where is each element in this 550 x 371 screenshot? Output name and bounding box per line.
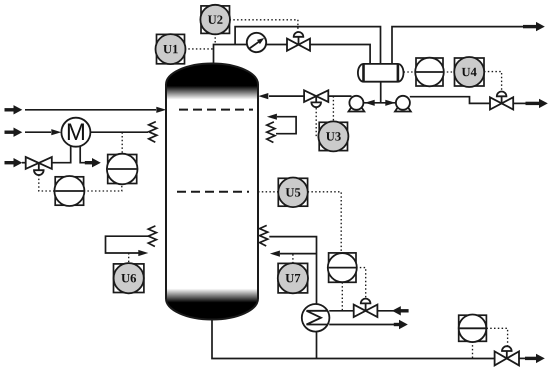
wire: valve V1 outlet to drum inlet: [310, 45, 370, 64]
distillation column C1 bottom cap: [166, 284, 258, 320]
signal: T4 to U4: [443, 71, 455, 73]
valve V7 (feed 3 valve): [26, 157, 52, 175]
wire: bypass line over valve to drum: [235, 27, 380, 64]
wire: condensate outlet line: [329, 324, 394, 326]
bold arrow: steam inlet (pointing left): [392, 306, 409, 315]
wire: overhead vapor line from column top: [214, 45, 288, 64]
heater coil Z3 (upper right squiggle): [267, 122, 275, 143]
arrow: upper right loop into column: [267, 114, 277, 120]
heater coil Z2 (lower left squiggle): [148, 226, 156, 247]
signal: U2 to valve V1 actuator: [230, 20, 298, 32]
condenser drum D1: [358, 64, 404, 82]
valve V1 (overhead control valve): [287, 32, 310, 51]
wire: upper right C loop: [276, 117, 296, 134]
wire: reflux line from valve V2 to column: [269, 95, 304, 97]
arrow: reflux into column: [258, 93, 268, 99]
bold arrow: mixer outlet product: [85, 158, 101, 167]
controller U2: [200, 5, 230, 35]
wire: bottoms outlet: [519, 357, 528, 359]
arrow: reboiler return into column: [270, 251, 280, 257]
bold arrow: feed 2 inlet: [5, 128, 23, 137]
valve V4 (distillate valve): [490, 91, 513, 109]
heater coil Z4 (reboiler return squiggle): [260, 225, 268, 246]
transmitter T6 (bottoms): [459, 315, 487, 343]
signal: column to U5: [258, 191, 278, 193]
wire: feed3 arrow to valve: [22, 162, 26, 164]
arrow: feed 2 into mixer: [51, 129, 61, 135]
controller U5: [278, 178, 308, 208]
signal: loop to U6: [128, 253, 130, 264]
signal: mixer line down to T1: [121, 132, 123, 154]
wire: vent line from drum to top-right outlet: [392, 27, 526, 64]
pump P1 (reflux pump): [349, 96, 365, 112]
transmitter T2: [54, 176, 84, 206]
arrow: feed 1 into column: [156, 107, 166, 113]
signal: T5 down to steam line: [341, 282, 343, 311]
signal: U5 to T5: [308, 192, 342, 253]
wire: steam line to valve V5: [329, 310, 354, 312]
wire: lower left C loop: [106, 236, 149, 253]
transmitter T5 (reboiler): [328, 253, 357, 282]
gauge PI (pressure indicator): [247, 33, 266, 52]
bold arrow: feed 1 inlet: [5, 105, 23, 114]
wire: reboiler riser loop: [269, 237, 316, 304]
signal: T6 to valve V6 actuator: [486, 328, 507, 346]
bold arrow: vent outlet top right: [523, 22, 545, 31]
wire: feed 2 line to mixer M: [25, 131, 51, 133]
valve V6 (bottoms valve): [495, 346, 519, 365]
valve V2 (reflux valve): [304, 90, 328, 107]
signal: U4 to valve V4 actuator: [484, 72, 502, 92]
wire: reboiler vertical through exchanger: [316, 332, 318, 359]
controller U6: [114, 263, 144, 293]
distillation column C1 shell: [166, 64, 258, 320]
heater coil Z1 (feed preheat squiggle): [149, 122, 157, 143]
wire: steam inlet line: [377, 310, 394, 312]
wire: drum outlet down to pumps: [380, 82, 382, 103]
reboiler E1 (heat exchanger): [302, 304, 330, 332]
arrow: to pump P2: [385, 100, 395, 106]
wire: drum outlet splitting to pumps: [363, 102, 396, 104]
wire: valve V2 to pump P1: [328, 95, 351, 97]
controller U1: [156, 34, 186, 64]
signal: V2 actuator to U3: [316, 108, 319, 137]
wire: distillate outlet: [513, 102, 528, 104]
controller U7: [278, 263, 308, 293]
signal: V7 actuator to T2 and T2 to T1: [39, 175, 122, 191]
controller U4: [454, 57, 484, 87]
signal: drum to T4: [404, 71, 417, 73]
arrow: to pump P1: [365, 100, 375, 106]
valve V5 (steam valve): [354, 299, 378, 317]
bold arrow: condensate out: [394, 320, 408, 329]
wire: reboiler mid line with arrow: [280, 253, 317, 255]
signal: U1 to overhead pipe: [185, 48, 214, 50]
transmitter T4 (condenser level): [415, 58, 444, 87]
dashed tray line upper: [179, 109, 253, 111]
dashed tray line lower: [177, 191, 249, 193]
bold arrow: feed 3 inlet: [5, 158, 23, 167]
wire: mixer to column heater coil: [90, 131, 148, 133]
arrow: lower left loop pointing right: [138, 250, 148, 256]
bold arrow: bottoms product out: [525, 354, 545, 363]
controller U3: [318, 121, 348, 151]
wire: mixer legs down: [52, 146, 86, 163]
transmitter T1: [107, 154, 138, 185]
mixer M1: [61, 118, 90, 147]
signal: T5 to valve V5 actuator: [356, 268, 366, 299]
wire: pump P2 to valve V4: [410, 97, 490, 104]
pump P2 (distillate pump): [395, 96, 411, 112]
distillation column C1 top cap: [166, 64, 258, 100]
signal: reflux line to U3: [332, 96, 334, 122]
bold arrow: distillate product out: [526, 99, 548, 108]
wire: column bottoms line: [212, 320, 495, 359]
signal: U7 to reboiler mid line: [292, 254, 294, 264]
wire: feed 1 line to column: [25, 109, 156, 111]
signal: bottoms line to T6: [472, 341, 474, 358]
signal: U2 down to overhead pipe: [214, 33, 216, 44]
